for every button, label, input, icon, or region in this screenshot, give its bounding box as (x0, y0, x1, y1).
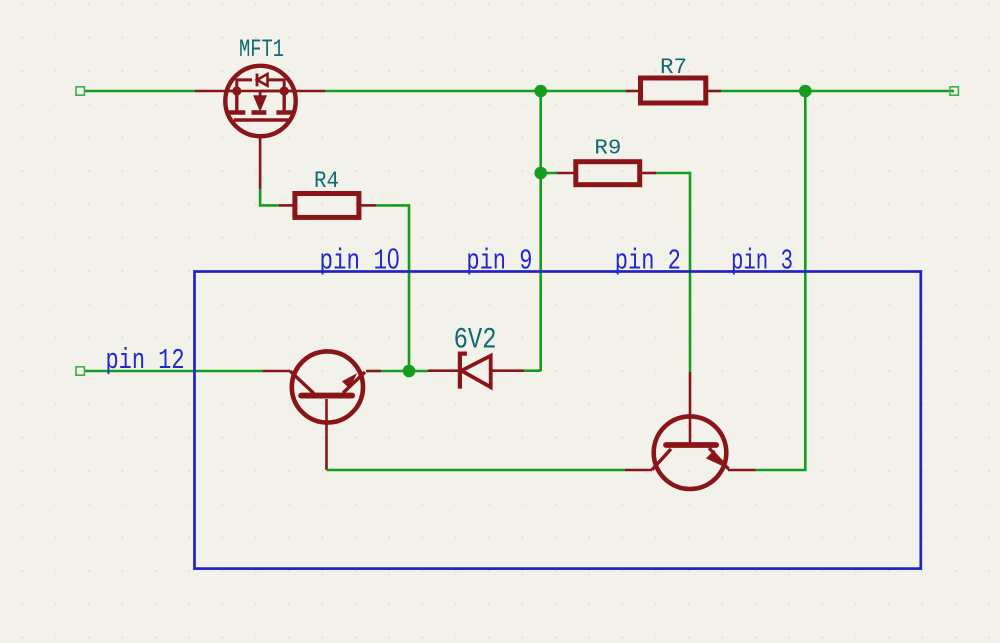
collector diagonal (652, 449, 671, 470)
wire: diode left pin stub (428, 369, 460, 372)
substrate arrow head (254, 96, 266, 111)
right drain vertical (283, 91, 286, 111)
svg-text:MFT1: MFT1 (239, 35, 284, 64)
resistor R7 (641, 78, 706, 103)
MOSFET source dot (232, 86, 241, 95)
svg-text:6V2: 6V2 (454, 324, 497, 358)
junction at top wire and pin 3 net (799, 85, 812, 98)
terminal square top right (950, 87, 958, 95)
junction at top wire and pin 9 net (534, 85, 547, 98)
terminal square pin 12 (76, 367, 84, 375)
wire: junction to R9 (541, 172, 557, 175)
body diode cathode bar (256, 74, 259, 87)
wire: diode right pin stub (490, 369, 524, 372)
channel bars (229, 110, 245, 115)
wire: R9 right pin stub (641, 172, 656, 175)
wire: emitter to pin 3 vertical (756, 91, 806, 470)
body diode wiring (237, 80, 252, 91)
wire: left transistor left pin stub (262, 370, 290, 373)
body diode triangle (257, 74, 268, 86)
svg-text:pin 3: pin 3 (731, 245, 793, 278)
emitter arrow head (707, 451, 722, 465)
wire: gate to R4 corner (260, 189, 279, 205)
svg-text:pin 12: pin 12 (106, 344, 185, 377)
terminal square top left (76, 87, 84, 95)
wire: R7 left pin stub (626, 90, 640, 93)
resistor R9 (576, 162, 640, 185)
wire: top net left segment (84, 90, 195, 93)
wire: top net middle segment (325, 90, 626, 93)
triangle (462, 356, 491, 388)
wire: R4 right pin stub (360, 204, 376, 207)
base bar (301, 393, 352, 399)
wire: right transistor emitter stub (728, 469, 756, 472)
wire: bottom net (327, 469, 625, 472)
resistor R4 (295, 194, 359, 218)
emitter diagonal (709, 448, 729, 469)
cathode bar with hook (460, 354, 467, 389)
junction at pin 10 net and pin 12 net (403, 365, 416, 378)
svg-text:pin 10: pin 10 (320, 244, 400, 278)
wire: R9 to pin 2 vertical (656, 173, 690, 372)
wire: vertical net pin 9 (539, 91, 542, 371)
transistor Q left (290, 351, 365, 422)
wire: diode to pin9 vertical (524, 369, 540, 372)
wire: MOSFET right pin stub (284, 90, 325, 93)
gate bar (234, 118, 289, 121)
svg-text:R4: R4 (314, 168, 339, 194)
base bar (666, 442, 716, 448)
wire: right transistor base pin (689, 372, 692, 443)
transistor Q right (652, 416, 729, 489)
svg-text:pin 9: pin 9 (466, 245, 532, 278)
wire: R4 to pin 10 vertical (376, 205, 409, 371)
emitter arrow head (343, 374, 356, 388)
wire: pin 12 net (84, 370, 262, 373)
junction at R9 and pin 9 net (534, 167, 547, 180)
wire: R9 left pin stub (557, 172, 574, 175)
wire: right transistor collector stub (625, 469, 652, 472)
MOSFET MFT1 (225, 66, 296, 136)
wire: MOSFET left pin stub (195, 90, 238, 93)
main S-D horizontal line (226, 90, 296, 93)
wire: junction to diode (381, 370, 428, 373)
substrate arrow line (260, 90, 284, 93)
MOSFET drain dot (280, 86, 289, 95)
left source vertical (235, 91, 238, 111)
wire: left transistor base pin down (325, 399, 328, 470)
emitter diagonal (343, 372, 365, 393)
svg-text:pin 2: pin 2 (615, 245, 681, 278)
wire: R4 left pin stub (279, 204, 293, 207)
wire: top net right segment (721, 90, 954, 93)
wire: left transistor right pin stub (366, 370, 381, 373)
wire: MOSFET gate pin down (259, 138, 262, 189)
svg-text:R9: R9 (594, 137, 621, 160)
wire: R7 right pin stub (707, 90, 721, 93)
blue component box (195, 272, 921, 569)
svg-text:R7: R7 (660, 54, 687, 80)
zener diode 6V2 (460, 354, 491, 389)
collector diagonal (290, 371, 314, 394)
